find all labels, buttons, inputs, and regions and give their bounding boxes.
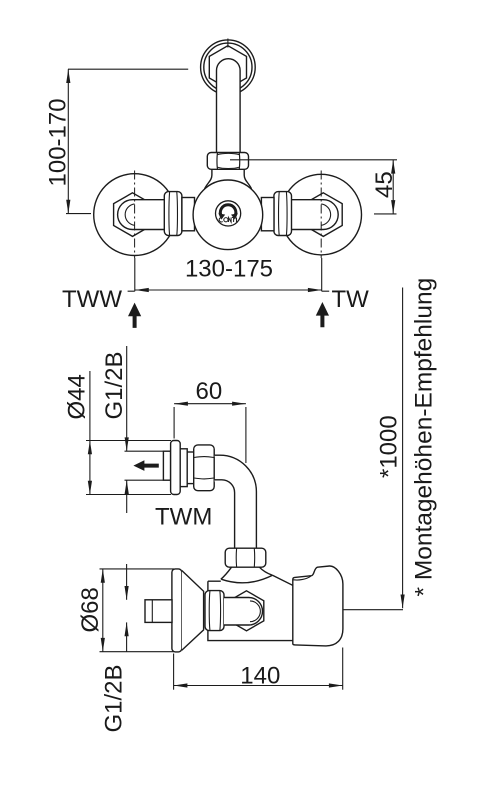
dim 60: dimension line — [174, 403, 246, 405]
cone — [182, 571, 204, 651]
dash-dot centerline left plate — [134, 171, 136, 259]
dim 140: dimension line — [174, 685, 343, 687]
dim *1000: down arrowhead — [401, 595, 405, 609]
left connector rect — [182, 198, 195, 231]
thermostat knob circle — [193, 180, 263, 250]
svg-text:TWW: TWW — [62, 286, 122, 313]
left wall plate circle — [94, 174, 176, 256]
svg-text:45: 45 — [371, 171, 398, 198]
dim 130-175: dimension line — [135, 289, 322, 291]
elbow nut face lines — [194, 457, 214, 479]
svg-text:G1/2B: G1/2B — [101, 664, 128, 732]
left eccentric inner arc — [125, 204, 134, 225]
dim Ø68: arrowheads — [101, 569, 105, 652]
dim G1/2B bottom: upper segment — [126, 564, 128, 600]
dim 140: arrowheads — [174, 683, 343, 687]
right union hex nut — [274, 192, 292, 236]
left union hex nut — [164, 192, 182, 236]
dim G1/2B top: upper segment with down arrow — [126, 346, 128, 451]
cone-body hex nut — [205, 591, 224, 631]
svg-text:60: 60 — [196, 378, 223, 405]
dim 100-170: top extension line — [68, 68, 188, 70]
neck from nut to knob — [205, 169, 252, 189]
knob inner circle — [216, 201, 241, 226]
svg-text:Ø68: Ø68 — [77, 587, 104, 632]
dim 60: left extension — [173, 407, 175, 439]
dim 140: left extension — [173, 654, 175, 690]
nut face lines — [217, 153, 240, 169]
cone wall disc — [172, 569, 182, 652]
dim Ø44: vertical line with leader — [89, 371, 91, 495]
dim Ø44: arrowheads — [88, 441, 92, 495]
dim G1/2B bottom: lower segment — [126, 622, 128, 652]
dim Ø44: top extension line — [86, 440, 171, 442]
CONTI logo text (drawn as tiny paths to avoid subpixel fringing) — [219, 218, 236, 223]
dim Ø68: vertical line — [102, 569, 104, 652]
riser pipe with rounded cap — [217, 59, 241, 153]
wall flange top: hex — [209, 46, 246, 89]
elbow bottom nut — [225, 548, 266, 567]
svg-text:Ø44: Ø44 — [64, 374, 91, 419]
svg-text:140: 140 — [240, 663, 280, 690]
dim 100-170: bottom extension line — [66, 213, 91, 215]
left hex behind eccentric — [114, 193, 152, 237]
svg-text:TWM: TWM — [155, 504, 212, 531]
dim G1/2B top: extension lines — [125, 451, 164, 480]
bonnet inner arc — [250, 601, 260, 622]
dim 60: right extension — [245, 407, 247, 463]
cylinder behind disc — [180, 449, 187, 487]
nut middle facet arcs — [218, 153, 240, 168]
svg-text:TW: TW — [332, 286, 370, 313]
diagonal bonnet hex — [229, 591, 264, 631]
right wall plate circle — [281, 174, 362, 255]
wall collar — [163, 451, 170, 480]
dim Ø68: bottom extension — [100, 651, 175, 653]
inlet stub — [145, 600, 172, 623]
right extension below plate — [322, 258, 330, 291]
dim 45: vertical dimension line — [392, 160, 394, 214]
elbow union nut — [194, 445, 215, 491]
dim G1/2B top: lower segment with up arrow — [126, 480, 128, 513]
dim Ø44: bottom extension line — [86, 494, 171, 496]
wall flange top: inner circle — [204, 43, 252, 91]
right hex behind eccentric — [304, 193, 342, 237]
arc end arrows — [218, 213, 238, 219]
knob rotation arc — [220, 205, 235, 216]
svg-text:100-170: 100-170 — [45, 98, 72, 186]
dim 45: leader line — [230, 159, 397, 161]
valve body outline — [208, 575, 295, 640]
bold arrow TWM (left pointing) — [133, 460, 158, 471]
dim 45: arrowheads — [391, 160, 395, 214]
bold arrow TWW — [128, 303, 141, 328]
leader line from handle to 1000 dim — [343, 609, 403, 611]
svg-text:130-175: 130-175 — [185, 256, 273, 283]
bonnet stadium — [224, 598, 263, 626]
dim 130-175: arrowheads — [135, 288, 322, 292]
right eccentric inner arc — [321, 204, 330, 225]
thread stub — [187, 452, 194, 484]
elbow pipe — [214, 455, 256, 548]
dim Ø68: top extension — [100, 568, 175, 570]
center tick above top flange — [227, 39, 229, 48]
dash-dot centerline right plate — [320, 171, 322, 259]
bold arrow TW — [316, 302, 329, 327]
svg-text:* Montagehöhen-Empfehlung: * Montagehöhen-Empfehlung — [411, 278, 438, 597]
handle inner step line — [294, 576, 311, 580]
dim 45: bottom tick — [374, 213, 397, 215]
svg-text:G1/2B: G1/2B — [101, 351, 128, 419]
wall flange top: outer circle — [201, 40, 256, 95]
body flare below nut — [221, 567, 273, 583]
dim 100-170: vertical dimension line — [67, 69, 69, 213]
handle — [293, 566, 343, 646]
dim 60: arrowheads — [174, 402, 246, 406]
svg-text:*1000: *1000 — [376, 415, 403, 478]
dim 140: right extension — [342, 648, 344, 690]
right eccentric stadium — [291, 200, 338, 230]
left extension below plate — [128, 258, 135, 291]
left eccentric stadium — [118, 200, 165, 230]
dim 100-170: arrowheads — [66, 69, 70, 213]
right connector rect — [261, 198, 274, 231]
pipe union nut (front) — [207, 153, 248, 170]
dim *1000: vertical line — [402, 288, 404, 609]
wall disc — [171, 441, 181, 495]
